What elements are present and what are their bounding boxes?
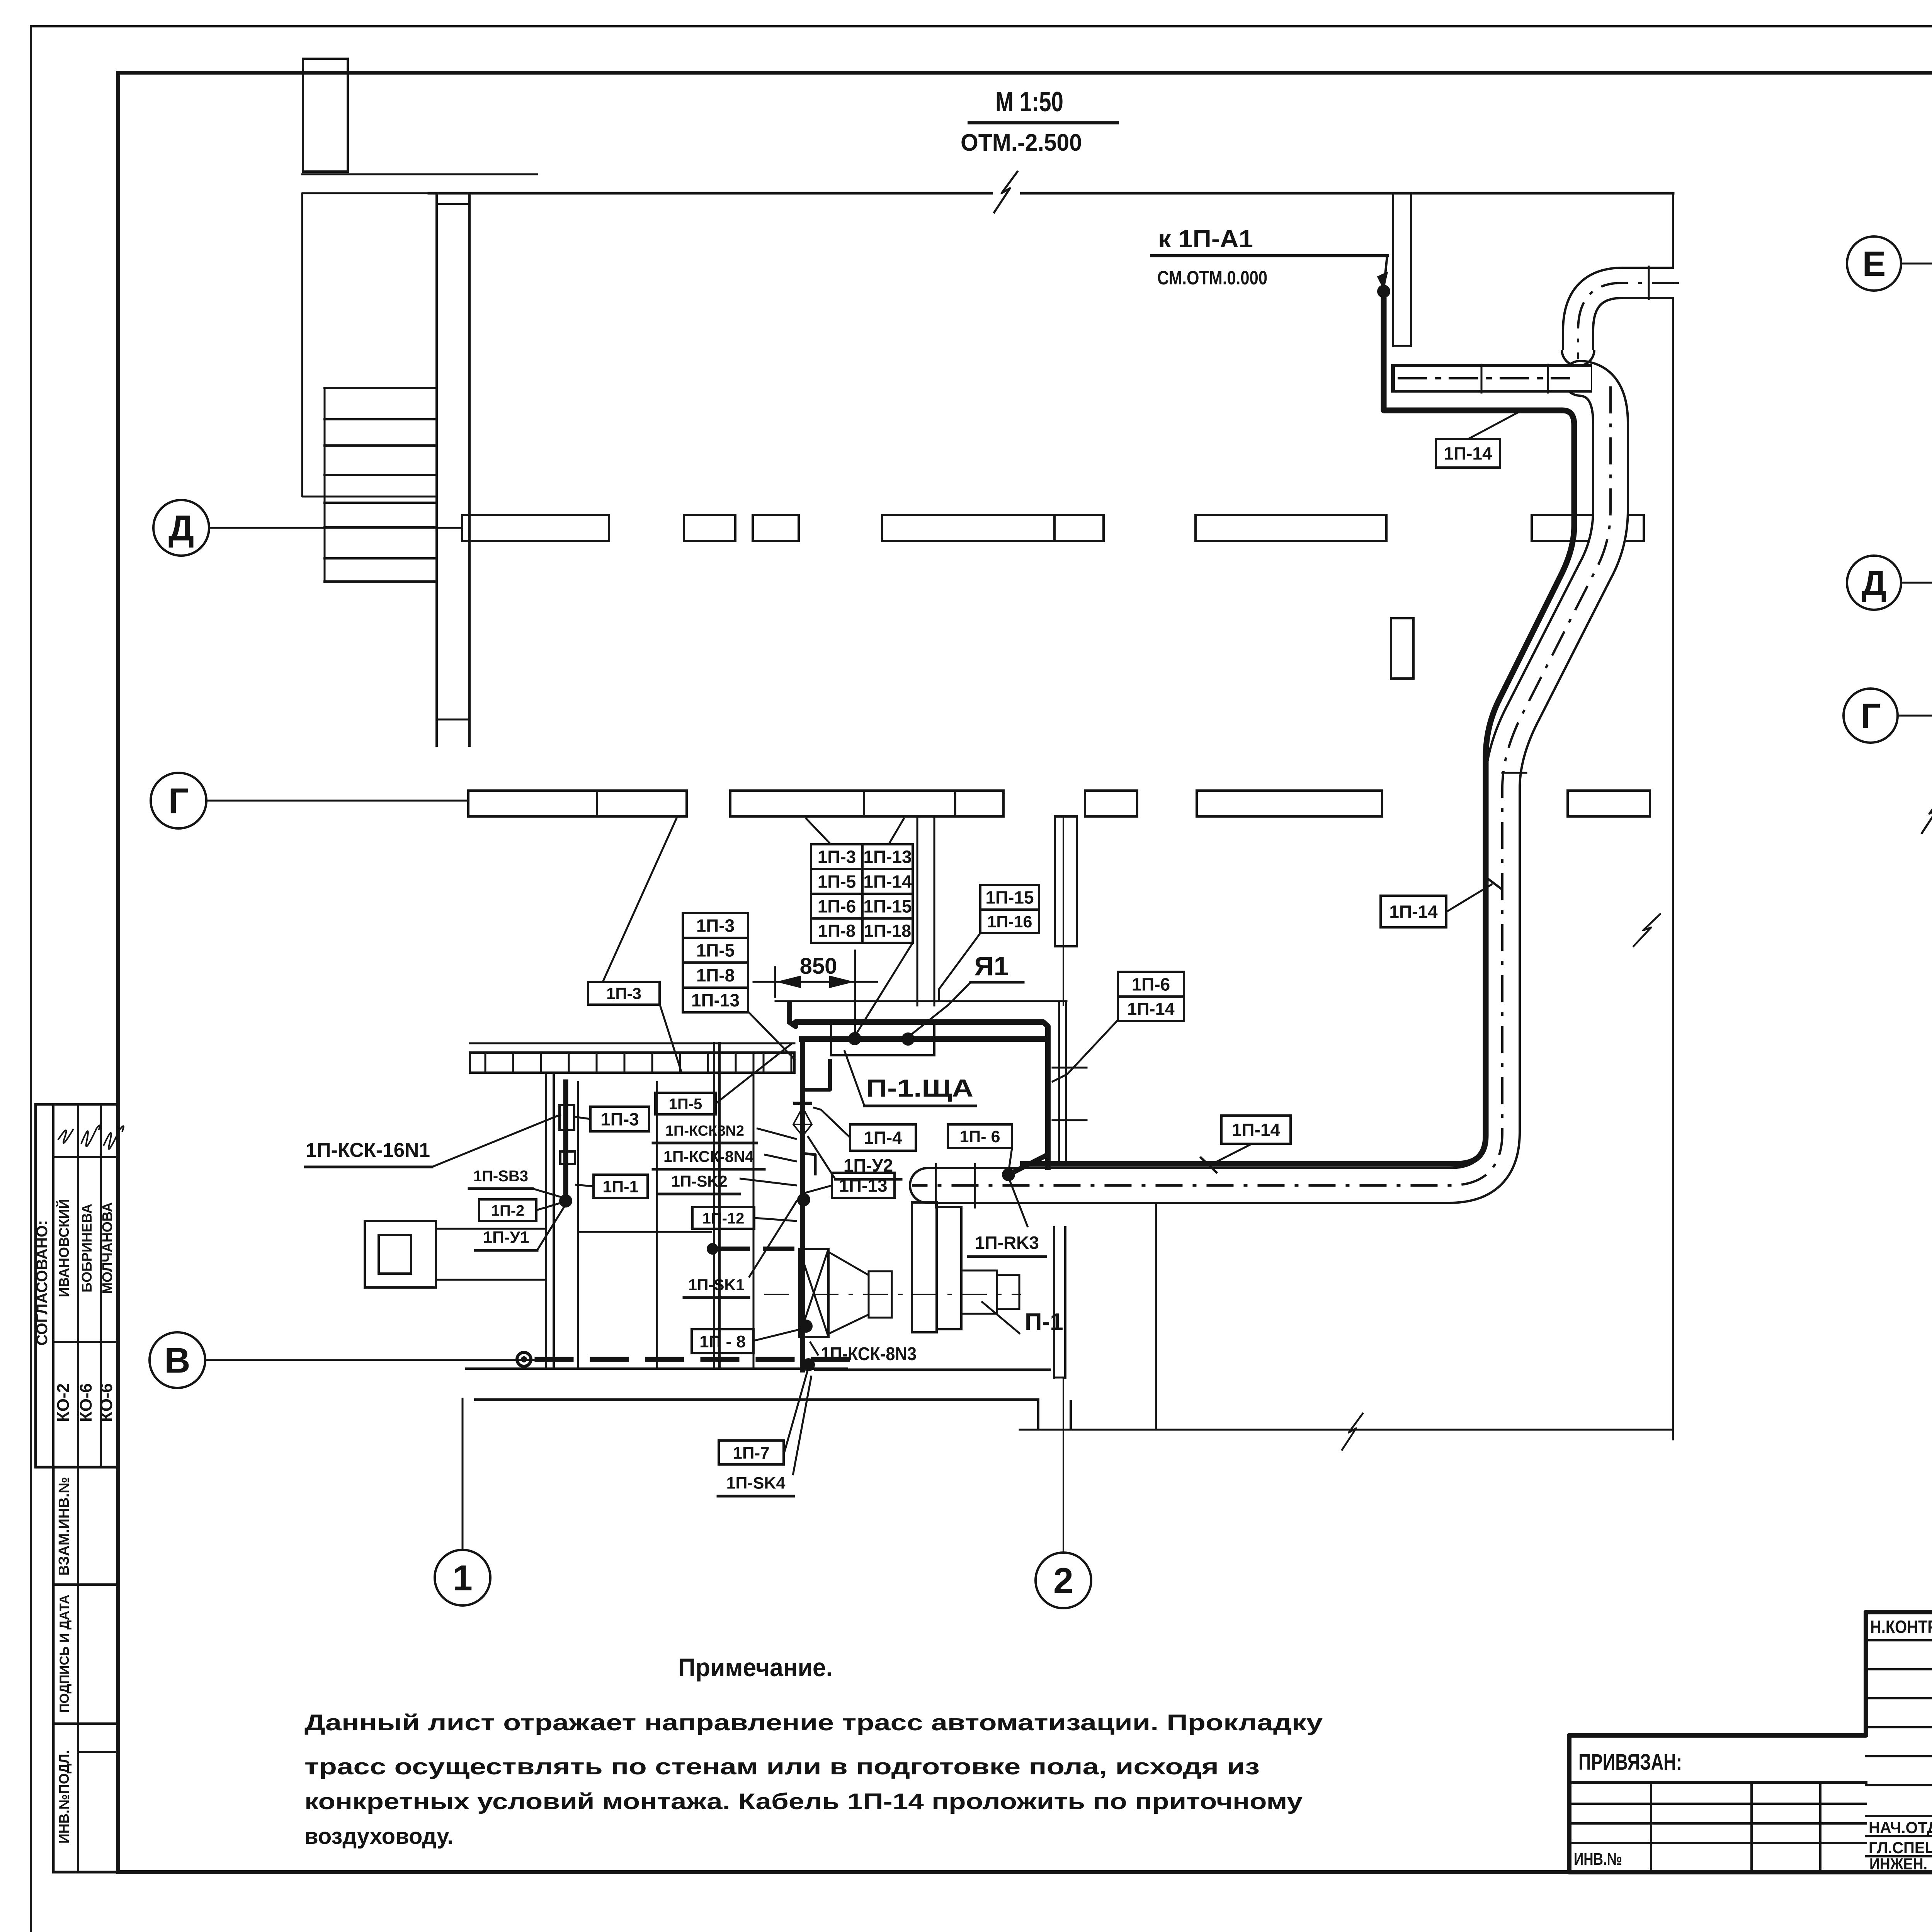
svg-text:ПОДПИСЬ И ДАТА: ПОДПИСЬ И ДАТА — [57, 1595, 72, 1713]
svg-text:1П-5: 1П-5 — [669, 1095, 702, 1112]
west wall of room block — [545, 1073, 547, 1369]
cable riser 1П-КСК-16N1 — [563, 1082, 568, 1201]
svg-text:1П-У1: 1П-У1 — [483, 1228, 529, 1247]
svg-text:1П-14: 1П-14 — [863, 872, 912, 892]
stamp block ВЗАМ.ИНВ.№ — [53, 1467, 118, 1585]
svg-text:воздуховоду.: воздуховоду. — [304, 1824, 453, 1849]
svg-text:1П-3: 1П-3 — [818, 847, 856, 867]
svg-text:Примечание.: Примечание. — [678, 1653, 833, 1682]
title block ПРИВЯЗАН box — [1569, 1781, 1866, 1784]
svg-text:1П-SK1: 1П-SK1 — [688, 1276, 745, 1294]
wall bar at axis 2 below duct — [1053, 1227, 1055, 1378]
svg-text:1П-14: 1П-14 — [1127, 999, 1174, 1019]
svg-text:Я1: Я1 — [974, 951, 1009, 981]
svg-text:1П-3: 1П-3 — [600, 1109, 639, 1129]
label 1П-SK1 — [684, 1276, 749, 1298]
small pier above Д right — [1391, 618, 1413, 679]
svg-text:Д: Д — [1862, 564, 1887, 603]
left plan top wall — [429, 192, 1673, 195]
axis Д wall piers — [462, 515, 609, 541]
svg-text:1П-14: 1П-14 — [1444, 444, 1492, 464]
svg-text:1П-SK4: 1П-SK4 — [726, 1474, 786, 1493]
svg-text:КО-2: КО-2 — [54, 1383, 73, 1422]
svg-text:1П-12: 1П-12 — [702, 1210, 745, 1227]
svg-text:1П-КСК-8N3: 1П-КСК-8N3 — [821, 1344, 917, 1364]
staircase enclosure — [302, 193, 437, 497]
fan transition cone — [828, 1252, 869, 1334]
svg-text:1П-13: 1П-13 — [839, 1175, 887, 1196]
south wall band — [466, 1367, 847, 1370]
svg-text:1П-6: 1П-6 — [818, 896, 856, 917]
cable node on duct — [1002, 1168, 1015, 1181]
svg-text:ОТМ.-2.500: ОТМ.-2.500 — [961, 129, 1082, 156]
axis Д circle (right plan) — [1847, 556, 1901, 610]
label 1П-У1 — [475, 1228, 537, 1250]
svg-text:1П-8: 1П-8 — [818, 921, 855, 941]
svg-text:2: 2 — [1053, 1561, 1073, 1601]
svg-text:МОЛЧАНОВА: МОЛЧАНОВА — [99, 1202, 115, 1294]
label box 1П-2 — [479, 1199, 536, 1221]
interior walls — [577, 1082, 579, 1368]
svg-text:1П-15: 1П-15 — [863, 896, 912, 917]
label box 1П-15/1П-16 — [980, 885, 1039, 910]
duct centerline dash-dot — [1578, 283, 1679, 359]
supply air duct upper run — [1578, 283, 1674, 350]
door box on south wall — [1037, 1400, 1039, 1429]
label box 1П-7 / 1П-SK4 — [719, 1440, 784, 1464]
label box 1П-3 (riser) — [590, 1107, 649, 1131]
svg-text:1П-3: 1П-3 — [696, 916, 735, 936]
svg-text:конкретных условий монтажа.: конкретных условий монтажа. Кабель 1П-14… — [304, 1789, 1303, 1814]
fan unit cross box — [799, 1249, 828, 1337]
svg-text:НАЧ.ОТД: НАЧ.ОТД — [1869, 1818, 1932, 1837]
svg-text:1П-14: 1П-14 — [1389, 902, 1438, 922]
svg-text:СМ.ОТМ.0.000: СМ.ОТМ.0.000 — [1157, 267, 1267, 289]
svg-text:ИВАНОВСКИЙ: ИВАНОВСКИЙ — [56, 1199, 72, 1297]
node dots on loop — [848, 1032, 861, 1045]
svg-text:Данный лист отражает направ: Данный лист отражает направление трасс а… — [304, 1710, 1323, 1735]
label box 1П-13 (duct) — [832, 1173, 895, 1198]
door opening walls — [917, 818, 918, 1005]
label 1П-SB3 — [469, 1168, 532, 1189]
svg-text:1П-4: 1П-4 — [864, 1128, 902, 1148]
cable 1П-14 heavy route — [1020, 291, 1574, 1164]
svg-text:1: 1 — [452, 1558, 473, 1598]
label box 1П-8 — [692, 1329, 753, 1353]
svg-text:1П-КСК-8N4: 1П-КСК-8N4 — [663, 1148, 754, 1165]
label box 1П-6/1П-14 (wall) — [1118, 972, 1184, 997]
svg-text:1П-13: 1П-13 — [691, 990, 740, 1010]
label box 1П-6 (duct) — [948, 1124, 1012, 1148]
tall box above staircase — [303, 59, 348, 172]
svg-text:ИНЖЕН.: ИНЖЕН. — [1869, 1855, 1927, 1873]
break symbol on top wall — [993, 170, 1020, 216]
axis В circle — [150, 1332, 205, 1388]
duct piece to П-1 label — [997, 1275, 1019, 1309]
riser jog — [803, 1153, 815, 1175]
svg-text:КО-6: КО-6 — [97, 1383, 116, 1422]
svg-text:1П-SK2: 1П-SK2 — [671, 1172, 728, 1190]
panel ЩА box — [831, 1022, 934, 1055]
svg-text:1П-16: 1П-16 — [987, 913, 1032, 931]
label stack 4 rows 1П-3 1П-5 1П-8 1П-13 — [683, 913, 748, 938]
node: cable tap к 1П-А1 — [1377, 285, 1390, 298]
label box 1П-1 — [594, 1175, 648, 1198]
duct joint ticks — [1481, 365, 1483, 393]
duct tee stub into plenum — [1391, 364, 1592, 393]
label 1П-У2 — [835, 1155, 901, 1179]
axis Г circle (right plan) — [1844, 689, 1898, 743]
break symbol open field — [1922, 791, 1932, 834]
wall pier below Г — [1055, 816, 1077, 946]
svg-text:1П-7: 1П-7 — [733, 1444, 769, 1463]
stair wall verticals — [435, 193, 438, 746]
label box 1П-4 — [850, 1124, 916, 1151]
svg-text:1П-RK3: 1П-RK3 — [975, 1233, 1039, 1253]
node dots on riser — [797, 1193, 810, 1206]
svg-text:1П-КСК-16N1: 1П-КСК-16N1 — [306, 1139, 430, 1162]
svg-text:к 1П-А1: к 1П-А1 — [1158, 225, 1253, 253]
svg-text:1П-13: 1П-13 — [863, 847, 912, 867]
svg-text:Е: Е — [1862, 245, 1886, 284]
label box 1П-14 (bottom duct) — [1221, 1116, 1291, 1144]
svg-text:ГЛ.СПЕЦ: ГЛ.СПЕЦ — [1869, 1838, 1932, 1857]
stamp signatures — [58, 1129, 73, 1143]
building bottom line — [1020, 1429, 1673, 1431]
break symbol on right boundary — [1633, 910, 1661, 951]
label stack 8 cells — [811, 844, 862, 869]
svg-text:1П-3: 1П-3 — [606, 985, 641, 1003]
svg-text:1П-5: 1П-5 — [818, 872, 856, 892]
svg-text:1П-5: 1П-5 — [696, 940, 735, 961]
wall pair at duct entry — [1392, 193, 1394, 346]
svg-text:СОГЛАСОВАНО:: СОГЛАСОВАНО: — [34, 1220, 51, 1346]
svg-text:П-1: П-1 — [1025, 1309, 1063, 1335]
axis Г wall piers — [468, 791, 597, 816]
svg-text:1П-18: 1П-18 — [864, 921, 911, 941]
axis Е circle — [1847, 236, 1901, 291]
axis 1 circle (left plan) — [435, 1550, 490, 1605]
svg-text:1П - 8: 1П - 8 — [699, 1332, 746, 1351]
svg-text:1П-КСК8N2: 1П-КСК8N2 — [665, 1123, 744, 1139]
svg-text:Н.КОНТР.: Н.КОНТР. — [1870, 1617, 1932, 1637]
axis 2 circle (left plan) — [1036, 1553, 1091, 1608]
title block outer — [1569, 1612, 1932, 1872]
svg-text:Г: Г — [168, 781, 189, 821]
stamp block ИНВ.№ ПОДЛ. — [53, 1724, 118, 1872]
valve symbol on riser — [793, 1102, 812, 1105]
axis Г circle (left plan) — [151, 773, 206, 828]
supply duct main S-run — [927, 378, 1611, 1185]
tambour box — [365, 1221, 436, 1287]
hatched wall band — [470, 1053, 794, 1073]
label box 1П-14 (middle duct) — [1381, 896, 1446, 927]
svg-text:Д: Д — [168, 508, 194, 548]
svg-text:1П-15: 1П-15 — [985, 888, 1034, 908]
svg-text:трасс осуществлять по стена: трасс осуществлять по стенам или в подго… — [304, 1754, 1260, 1779]
svg-text:ПРИВЯЗАН:: ПРИВЯЗАН: — [1578, 1750, 1682, 1775]
svg-text:1П-8: 1П-8 — [696, 965, 735, 985]
label box 1П-14 (top) — [1436, 439, 1500, 468]
cable loop in П-1.ЩА — [802, 1036, 1047, 1042]
stamp block СОГЛАСОВАНО — [36, 1104, 118, 1467]
svg-text:1П-SB3: 1П-SB3 — [473, 1168, 528, 1185]
svg-text:П-1.ЩА: П-1.ЩА — [866, 1074, 973, 1102]
svg-text:1П-14: 1П-14 — [1232, 1120, 1281, 1140]
axis Д circle (left plan) — [153, 500, 209, 556]
air handling slabs — [869, 1271, 892, 1318]
label stack 1П-5 / КСК8N2 / КСК-8N4 / SK2 — [655, 1093, 716, 1114]
dashed cable 1П-SK1 — [707, 1243, 718, 1255]
svg-text:1П-6: 1П-6 — [1132, 975, 1170, 995]
staircase treads — [325, 387, 437, 389]
svg-text:ВЗАМ.ИНВ.№: ВЗАМ.ИНВ.№ — [56, 1477, 72, 1576]
left plan right boundary wall — [1672, 193, 1674, 1439]
heavy stub to panel — [803, 1059, 830, 1090]
svg-text:М 1:50: М 1:50 — [995, 87, 1063, 117]
svg-text:В: В — [164, 1340, 190, 1381]
П-1.ЩА room walls — [776, 1000, 1066, 1002]
svg-text:1П-2: 1П-2 — [491, 1202, 525, 1219]
svg-text:Г: Г — [1861, 697, 1881, 736]
dashed cable at В axis — [517, 1352, 531, 1366]
svg-text:ИНВ.№ПОДЛ.: ИНВ.№ПОДЛ. — [56, 1750, 72, 1844]
label box 1П-12 — [692, 1207, 754, 1229]
label box 1П-3 (wall) — [588, 982, 660, 1005]
svg-text:850: 850 — [800, 954, 837, 979]
svg-text:БОБРИНЕВА: БОБРИНЕВА — [79, 1204, 95, 1293]
svg-text:КО-6: КО-6 — [77, 1383, 95, 1422]
svg-text:1П-1: 1П-1 — [602, 1177, 638, 1196]
stamp block ПОДПИСЬ И ДАТА — [53, 1585, 118, 1724]
fan room east wall — [1155, 1205, 1157, 1430]
svg-text:ИНВ.№: ИНВ.№ — [1574, 1850, 1622, 1869]
label 1П-RK3 — [968, 1233, 1046, 1257]
centerline through fan — [765, 1294, 1020, 1295]
svg-text:1П- 6: 1П- 6 — [959, 1128, 1000, 1146]
